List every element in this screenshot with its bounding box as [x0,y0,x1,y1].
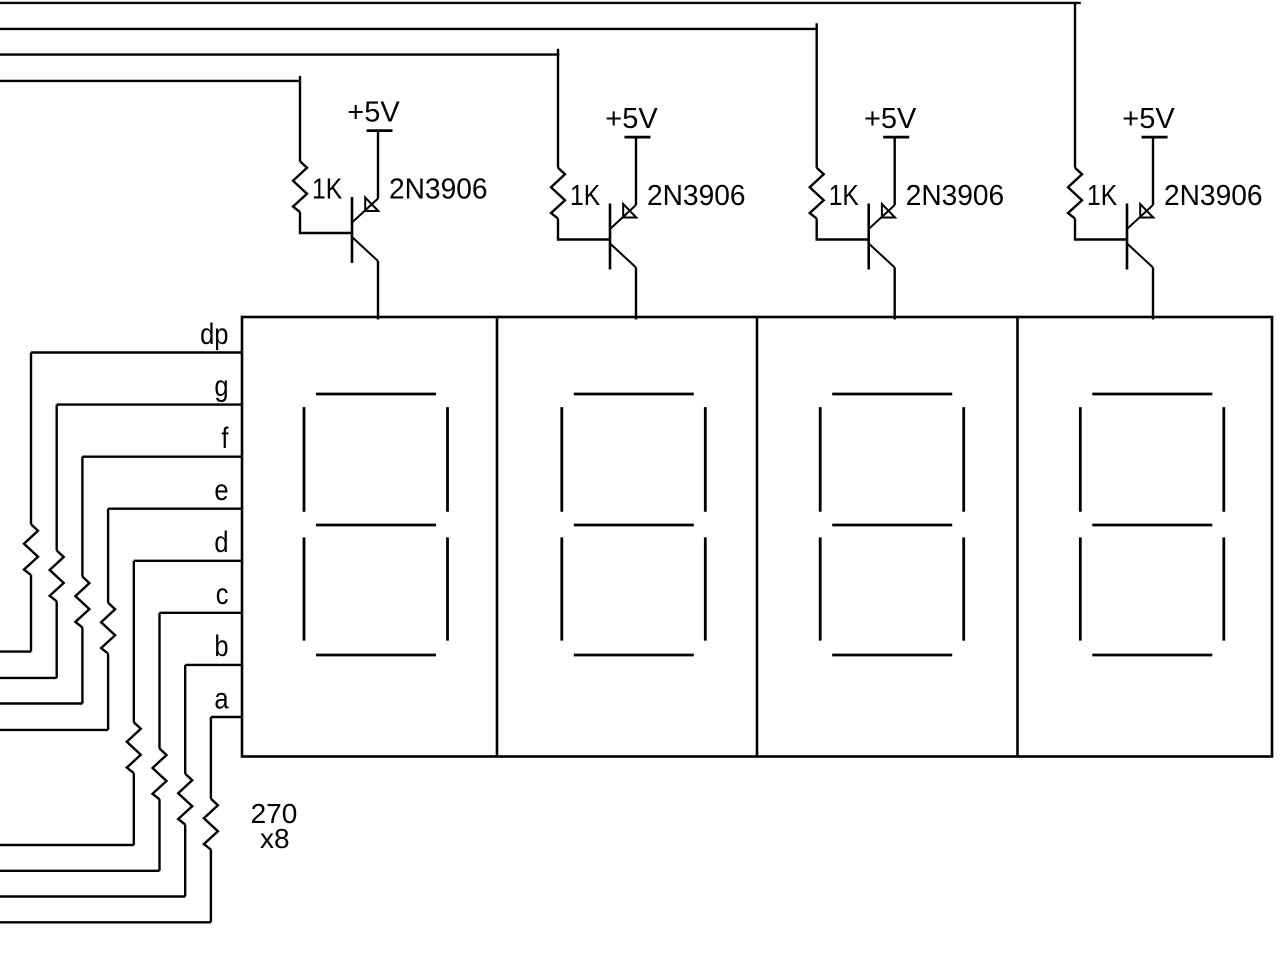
svg-text:1K: 1K [570,179,600,211]
wire: segment f to controller (off page) [0,702,82,704]
wire: drop to R4 [1074,3,1076,168]
wire: pin e from display [108,508,242,510]
wire: digit-1 drive line [0,80,300,82]
svg-text:+5V: +5V [605,103,658,135]
wire: pin b from display [185,664,242,666]
resistor 1K (base resistor 2) [551,168,565,219]
wire: segment a below resistor [210,850,212,923]
svg-text:b: b [214,629,228,662]
resistor 1K (base resistor 3) [810,168,824,219]
wire: pin e drop [107,509,109,603]
svg-text:+5V: +5V [347,96,400,128]
wire: pin f from display [82,455,242,457]
resistor 270 ohm (segment e) [101,603,115,654]
wire: segment c below resistor [158,799,160,871]
wire: segment g below resistor [56,601,58,678]
7-segment digit 4 [1080,394,1224,655]
wire: +5V to emitter Q3 [894,137,896,205]
wire: pin g drop [56,405,58,551]
svg-text:d: d [214,525,228,558]
power rail +5V bar 4 [1142,136,1168,139]
wire: pin a from display [211,716,242,718]
wire: collector Q3 to display 3 common anode [894,268,896,320]
wire: segment d to controller (off page) [0,844,134,846]
wire: pin dp from display [31,351,242,353]
svg-text:g: g [214,369,228,402]
wire: pin d from display [134,560,242,562]
wire: pin c drop [158,613,160,749]
wire: collector Q4 to display 4 common anode [1152,268,1154,320]
svg-text:1K: 1K [312,173,342,205]
power rail +5V bar 2 [625,136,651,139]
wire: digit-4 drive line (top) [0,2,1081,4]
7-segment digit 3 [820,394,964,655]
display divider digit2/digit3 [756,317,759,757]
display divider digit3/digit4 [1016,317,1019,757]
wire: segment b to controller (off page) [0,895,185,897]
svg-text:2N3906: 2N3906 [1164,180,1262,212]
svg-text:2N3906: 2N3906 [647,180,745,212]
wire: segment g to controller (off page) [0,677,57,679]
wire: segment d below resistor [133,773,135,845]
wire: +5V to emitter Q2 [635,137,637,205]
svg-text:c: c [216,577,229,610]
resistor 270 ohm (segment g) [50,551,64,602]
power rail +5V bar 3 [883,136,909,139]
transistor Q3 2N3906 PNP [869,204,895,270]
resistor 1K (base resistor 4) [1068,168,1082,219]
wire: drop to R1 [299,76,301,161]
svg-text:+5V: +5V [1122,103,1175,135]
wire: segment b below resistor [184,825,186,897]
7-segment digit 1 [304,394,448,655]
wire: R1 to base of Q1 [300,212,352,233]
resistor 270 ohm (segment b) [178,774,192,825]
wire: pin c from display [160,612,243,614]
resistor 1K (base resistor 1) [293,161,307,212]
display module assembly: four 7-segment digits [242,317,1272,757]
wire: pin a drop [210,717,212,799]
wire: R4 to base of Q4 [1075,219,1127,240]
wire: segment c to controller (off page) [0,870,160,872]
wire: R3 to base of Q3 [817,219,869,240]
svg-text:x8: x8 [260,823,290,854]
wire: pin g from display [57,403,242,405]
wire: pin dp drop [30,353,32,525]
svg-text:1K: 1K [829,179,859,211]
resistor 270 ohm (segment d) [127,722,141,773]
svg-text:2N3906: 2N3906 [389,173,487,205]
resistor 270 ohm (segment dp) [24,524,38,575]
resistor 270 ohm (segment f) [75,577,89,628]
svg-text:e: e [214,473,228,506]
wire: digit-2 drive line [0,53,559,55]
wire: segment dp to controller (off page) [0,650,31,652]
wire: +5V to emitter Q1 [377,131,379,199]
transistor Q2 2N3906 PNP [610,204,636,270]
transistor Q4 2N3906 PNP [1127,204,1153,270]
wire: pin d drop [133,561,135,723]
wire: segment a to controller (off page) [0,921,211,923]
7-segment digit 2 [562,394,706,655]
wire: +5V to emitter Q4 [1152,137,1154,205]
wire: segment f below resistor [81,627,83,703]
transistor Q1 2N3906 PNP [352,197,378,263]
wire: segment dp below resistor [30,575,32,652]
wire: segment e to controller (off page) [0,729,108,731]
wire: drop to R2 [557,49,559,168]
wire: pin b drop [184,665,186,774]
svg-text:dp: dp [200,317,228,350]
wire: collector Q2 to display 2 common anode [635,268,637,320]
power rail +5V bar 1 [367,129,393,132]
wire: segment e below resistor [107,654,109,730]
svg-text:+5V: +5V [864,103,917,135]
wire: collector Q1 to display 1 common anode [377,261,379,320]
wire: pin f drop [81,457,83,577]
resistor 270 ohm (segment c) [153,749,167,800]
wire: R2 to base of Q2 [558,219,610,240]
wire: drop to R3 [816,23,818,168]
svg-text:2N3906: 2N3906 [906,180,1004,212]
resistor 270 ohm (segment a) [204,799,218,850]
svg-text:a: a [214,681,229,714]
svg-text:f: f [221,421,228,454]
display divider digit1/digit2 [496,317,499,757]
wire: digit-3 drive line [0,28,817,30]
svg-text:1K: 1K [1087,179,1117,211]
